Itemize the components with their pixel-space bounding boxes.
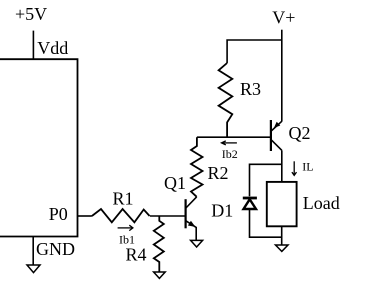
wire D1 bottom branch	[250, 210, 282, 237]
resistor R3	[219, 63, 233, 137]
svg-text:Q2: Q2	[289, 123, 311, 143]
ground (below Load)	[276, 245, 289, 251]
resistor R4	[154, 216, 164, 272]
resistor R1	[92, 209, 150, 222]
wire P0 to R1	[78, 215, 92, 217]
svg-text:R1: R1	[113, 189, 134, 209]
resistor R2	[191, 137, 203, 197]
ground (below Q1)	[191, 240, 203, 247]
transistor Q1 base bar	[185, 199, 187, 228]
svg-text:V+: V+	[272, 7, 295, 27]
svg-text:R2: R2	[208, 163, 229, 183]
wire D1 top branch	[250, 164, 282, 196]
svg-text:P0: P0	[49, 204, 68, 224]
transistor Q2 emitter lead with arrow (PNP)	[271, 121, 282, 131]
wire base net (R2 top to Q2 base)	[197, 136, 271, 138]
svg-text:+5V: +5V	[15, 4, 47, 24]
diode D1 cathode bar	[243, 197, 257, 200]
svg-text:Load: Load	[303, 193, 340, 213]
transistor Q2 base bar	[270, 120, 272, 151]
wire R1 to Q1 base (junction with R4)	[150, 215, 185, 217]
wire +5V to Vdd pin	[32, 31, 34, 60]
wire load bottom to ground	[281, 226, 283, 245]
svg-text:GND: GND	[36, 239, 75, 259]
current arrow Ib2	[222, 141, 237, 145]
MCU box (Vdd/P0/GND block)	[0, 59, 78, 236]
current arrow Ib1	[118, 225, 133, 230]
ground (MCU GND)	[27, 265, 40, 273]
wire Q2 collector down to load	[281, 150, 283, 182]
transistor Q1 collector lead	[186, 197, 197, 208]
svg-text:R3: R3	[240, 79, 261, 99]
svg-text:Ib2: Ib2	[222, 147, 238, 161]
diode D1 triangle	[244, 199, 257, 209]
svg-text:Vdd: Vdd	[37, 38, 68, 58]
wire V+ rail top	[227, 40, 282, 63]
wire V+ down to Q2 emitter	[281, 30, 283, 122]
wire GND pin down	[32, 237, 34, 266]
svg-text:Q1: Q1	[164, 173, 186, 193]
svg-text:D1: D1	[211, 200, 233, 220]
transistor Q2 collector lead	[271, 140, 282, 151]
current arrow IL	[292, 161, 297, 175]
svg-text:IL: IL	[302, 159, 313, 173]
transistor Q1 emitter lead with arrow	[186, 221, 196, 241]
svg-text:R4: R4	[126, 245, 147, 265]
load box	[267, 182, 297, 226]
ground (below R4)	[154, 272, 166, 278]
